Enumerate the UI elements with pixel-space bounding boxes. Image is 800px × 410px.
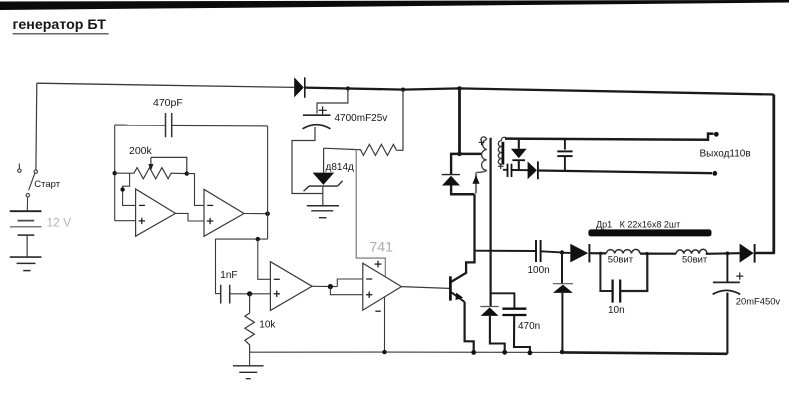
svg-text:10n: 10n: [608, 305, 625, 316]
junction dot: [346, 86, 350, 90]
svg-text:Старт: Старт: [34, 179, 60, 190]
wire top rail to transformer: [458, 88, 461, 153]
zener diode д814д: [304, 148, 354, 206]
capacitor 20mF450v: [713, 253, 781, 353]
capacitor 470pF: [153, 97, 183, 137]
wire right rail of oscillator: [267, 126, 269, 239]
inductor core bar Др1: [588, 229, 711, 236]
wire collector node to 100n: [475, 250, 537, 252]
wire top of oscillator loop: [115, 124, 166, 126]
junction dot: [457, 86, 461, 90]
junction dot: [599, 252, 602, 255]
diode (output to right rail): [740, 244, 775, 263]
wire +12V top rail: [37, 83, 294, 87]
wire: [172, 124, 268, 127]
junction dot: [471, 350, 476, 355]
wire 4700mF negative lead: [292, 127, 323, 194]
wire top rail to 4700mF: [317, 89, 348, 114]
junction dot: [185, 171, 189, 175]
svg-text:12 V: 12 V: [47, 216, 72, 230]
junction dot: [328, 284, 333, 289]
junction dot: [247, 291, 252, 296]
junction dot: [645, 252, 648, 255]
transistor Q1: [450, 194, 474, 352]
ground (battery): [10, 257, 42, 271]
diode (470n branch rectifier): [480, 307, 504, 353]
wire U2 output to right rail: [244, 213, 268, 215]
junction dot: [120, 187, 124, 191]
output terminal dot: [712, 171, 717, 176]
junction dot: [265, 211, 270, 216]
wire L2 to diode: [706, 252, 740, 255]
diode (flyback across primary): [442, 153, 460, 195]
wire 741 V+ supply from zener node: [356, 149, 385, 277]
wire right rail down: [772, 95, 775, 254]
transformer T1 secondary winding: [498, 137, 507, 169]
svg-text:200k: 200k: [129, 145, 153, 157]
capacitor 1nF: [220, 270, 237, 304]
svg-text:20mF450v: 20mF450v: [736, 296, 781, 307]
op-amp U4 (741): [363, 261, 402, 312]
svg-text:50вит: 50вит: [608, 255, 634, 266]
svg-text:10k: 10k: [259, 319, 276, 330]
inductor L1 50вит: [606, 249, 640, 265]
wire U4 output to base: [401, 287, 449, 289]
wire to U3 inverting input: [258, 239, 271, 279]
wire to U4 inverting input: [337, 279, 363, 287]
wire top rail to resistor: [402, 90, 404, 151]
wire U4 V- supply to bottom rail: [384, 297, 386, 352]
op-amp U3: [270, 262, 312, 311]
wire battery to ground: [26, 236, 28, 257]
title генератор БТ: [13, 17, 109, 34]
wire U1 output to U2 non-inverting input: [176, 213, 205, 221]
wire 1nF to U3 non-inverting input: [230, 293, 271, 295]
wire lower output wire: [539, 171, 712, 174]
battery 12V: [10, 211, 71, 235]
junction dot: [382, 350, 386, 354]
wire switch to top rail: [35, 83, 38, 170]
wire diode anode to collector node: [450, 193, 475, 196]
wire to U1 inverting input: [123, 173, 136, 205]
inductor L2 50вит: [676, 249, 708, 265]
capacitor (secondary coupling): [503, 164, 529, 177]
junction dot: [457, 152, 462, 157]
svg-text:470n: 470n: [518, 321, 540, 332]
svg-text:генератор БТ: генератор БТ: [13, 17, 107, 33]
svg-text:470pF: 470pF: [153, 97, 183, 109]
diode (node to bottom rail): [553, 253, 573, 352]
wire primary bottom lead with arrowhead: [472, 170, 486, 193]
wire between inductors: [640, 253, 676, 255]
junction dot: [113, 171, 117, 175]
svg-text:50вит: 50вит: [682, 254, 708, 265]
capacitor 4700mF25v: [303, 106, 388, 129]
switch Старт: [18, 164, 61, 198]
diode (series, lower output wire): [528, 161, 538, 179]
diode (from top wire down): [511, 140, 527, 171]
op-amp U2: [204, 189, 244, 236]
output terminal dot: [714, 132, 719, 137]
svg-text:741: 741: [370, 239, 394, 255]
transformer T1 primary winding: [479, 137, 487, 170]
svg-text:Др1 К 22х16х8 2шт: Др1 К 22х16х8 2шт: [596, 220, 680, 230]
op-amp U1: [136, 189, 176, 236]
svg-text:1nF: 1nF: [220, 270, 237, 281]
transformer core / secondary return wire: [490, 138, 492, 307]
wire top rail right of D1: [305, 88, 774, 95]
wire U3 output: [312, 285, 337, 287]
wire bottom jog of oscillator: [216, 239, 268, 294]
wire resistor to zener node: [324, 148, 358, 149]
diode D1 (top rail): [294, 77, 305, 98]
resistor 10k: [245, 294, 277, 352]
wire pot wiper node to U2 inverting input: [187, 174, 204, 206]
junction dot: [528, 350, 533, 355]
junction dot: [726, 252, 730, 256]
wire left rail of oscillator: [114, 125, 116, 221]
wire to U1 non-inverting input: [115, 220, 136, 222]
wire 100n to diode node: [541, 251, 562, 252]
svg-text:100n: 100n: [528, 265, 550, 276]
potentiometer 200k: [115, 145, 187, 179]
wire switch to battery: [26, 197, 28, 211]
wire to primary top: [451, 153, 481, 156]
svg-text:д814д: д814д: [326, 162, 355, 173]
ground (10k): [233, 352, 264, 379]
wire bottom rail (thin): [250, 351, 562, 353]
capacitor 10n (below L1): [600, 254, 647, 316]
ground (zener): [307, 206, 339, 218]
resistor (zener feed): [358, 144, 403, 155]
junction dot: [256, 237, 260, 241]
wire secondary top to output terminal: [505, 134, 714, 140]
capacitor 470n: [491, 293, 541, 352]
svg-text:4700mF25v: 4700mF25v: [335, 113, 388, 124]
svg-text:Выход110в: Выход110в: [700, 149, 751, 160]
junction dot: [502, 350, 507, 355]
junction dot: [560, 250, 564, 254]
diode (series before Др1): [562, 244, 606, 263]
wire to U4 non-inverting input: [330, 287, 362, 295]
junction dot: [401, 88, 405, 92]
capacitor (across output wires): [557, 139, 572, 171]
junction dot: [560, 350, 564, 354]
wire bottom rail (thick): [562, 352, 727, 353]
capacitor 100n: [528, 240, 550, 276]
